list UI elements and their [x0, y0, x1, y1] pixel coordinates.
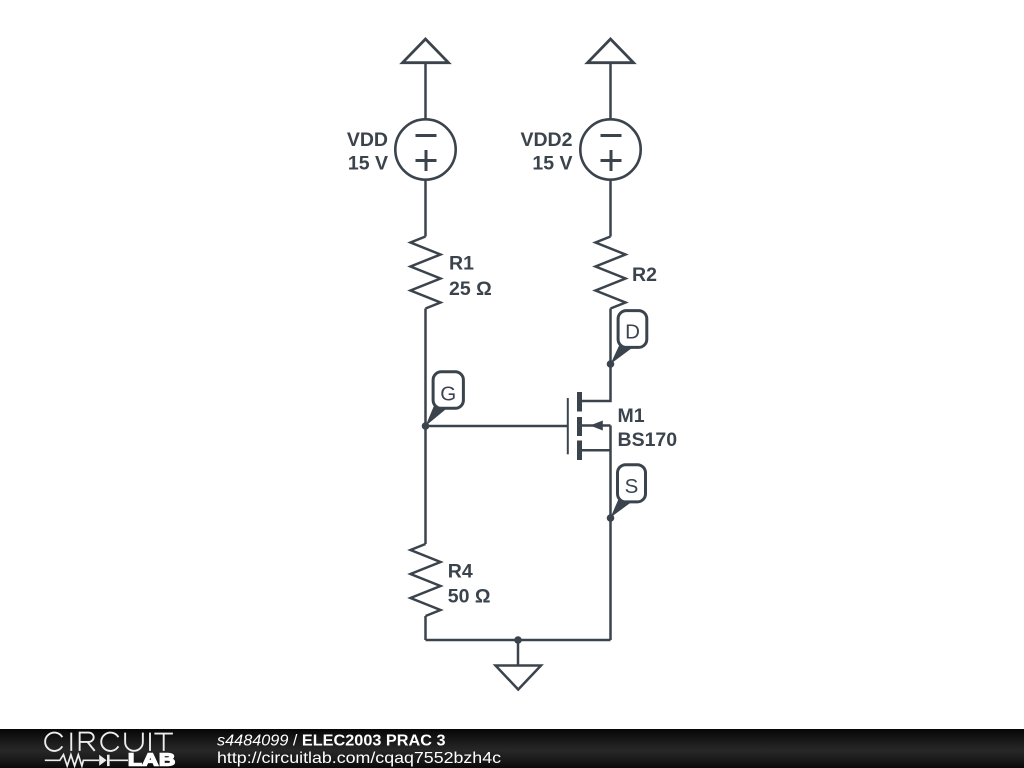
svg-text:http://circuitlab.com/cqaq7552: http://circuitlab.com/cqaq7552bzh4c	[217, 750, 501, 767]
power flag VDD2	[588, 39, 634, 63]
wire VDD source to R1	[424, 181, 427, 237]
wire VDD2 flag to source	[609, 63, 612, 120]
wire source to bottom rail (through node S)	[609, 426, 612, 641]
node label S	[611, 465, 646, 518]
svg-text:15 V: 15 V	[348, 153, 388, 175]
svg-text:LAB: LAB	[128, 750, 176, 768]
footer bar	[0, 729, 1024, 768]
voltage source VDD	[395, 119, 455, 179]
ground	[496, 640, 542, 690]
svg-text:s4484099 / ELEC2003 PRAC 3: s4484099 / ELEC2003 PRAC 3	[217, 733, 446, 750]
resistor R1	[411, 237, 441, 309]
svg-text:VDD: VDD	[347, 129, 388, 151]
node G junction	[422, 422, 430, 430]
wire bottom rail	[426, 639, 611, 642]
svg-text:25 Ω: 25 Ω	[449, 278, 492, 300]
wire drain (through node D)	[582, 309, 611, 402]
svg-text:S: S	[625, 475, 639, 498]
node D junction	[607, 360, 615, 368]
svg-text:VDD2: VDD2	[520, 129, 572, 151]
svg-text:D: D	[625, 321, 640, 344]
svg-text:15 V: 15 V	[532, 153, 572, 175]
ground junction	[514, 636, 522, 644]
node label D	[611, 311, 647, 364]
svg-text:BS170: BS170	[618, 429, 678, 451]
resistor R2	[596, 237, 626, 309]
logo CIRCUIT LAB	[45, 733, 176, 768]
power flag VDD	[403, 39, 449, 63]
svg-text:M1: M1	[618, 405, 645, 427]
wire VDD2 source to R2	[609, 181, 612, 237]
svg-text:G: G	[440, 383, 456, 406]
wire R1 to R4 (through node G)	[424, 309, 427, 545]
wire R4 to bottom rail	[424, 616, 427, 640]
node S junction	[607, 514, 615, 522]
wire VDD flag to source	[424, 63, 427, 120]
svg-text:R1: R1	[449, 253, 474, 275]
svg-text:R4: R4	[448, 561, 473, 583]
wire gate	[426, 425, 568, 428]
resistor R4	[411, 544, 441, 616]
voltage source VDD2	[580, 119, 640, 179]
transistor M1	[568, 392, 611, 460]
svg-text:50 Ω: 50 Ω	[448, 586, 491, 608]
node label G	[426, 372, 464, 426]
svg-text:R2: R2	[632, 264, 657, 286]
